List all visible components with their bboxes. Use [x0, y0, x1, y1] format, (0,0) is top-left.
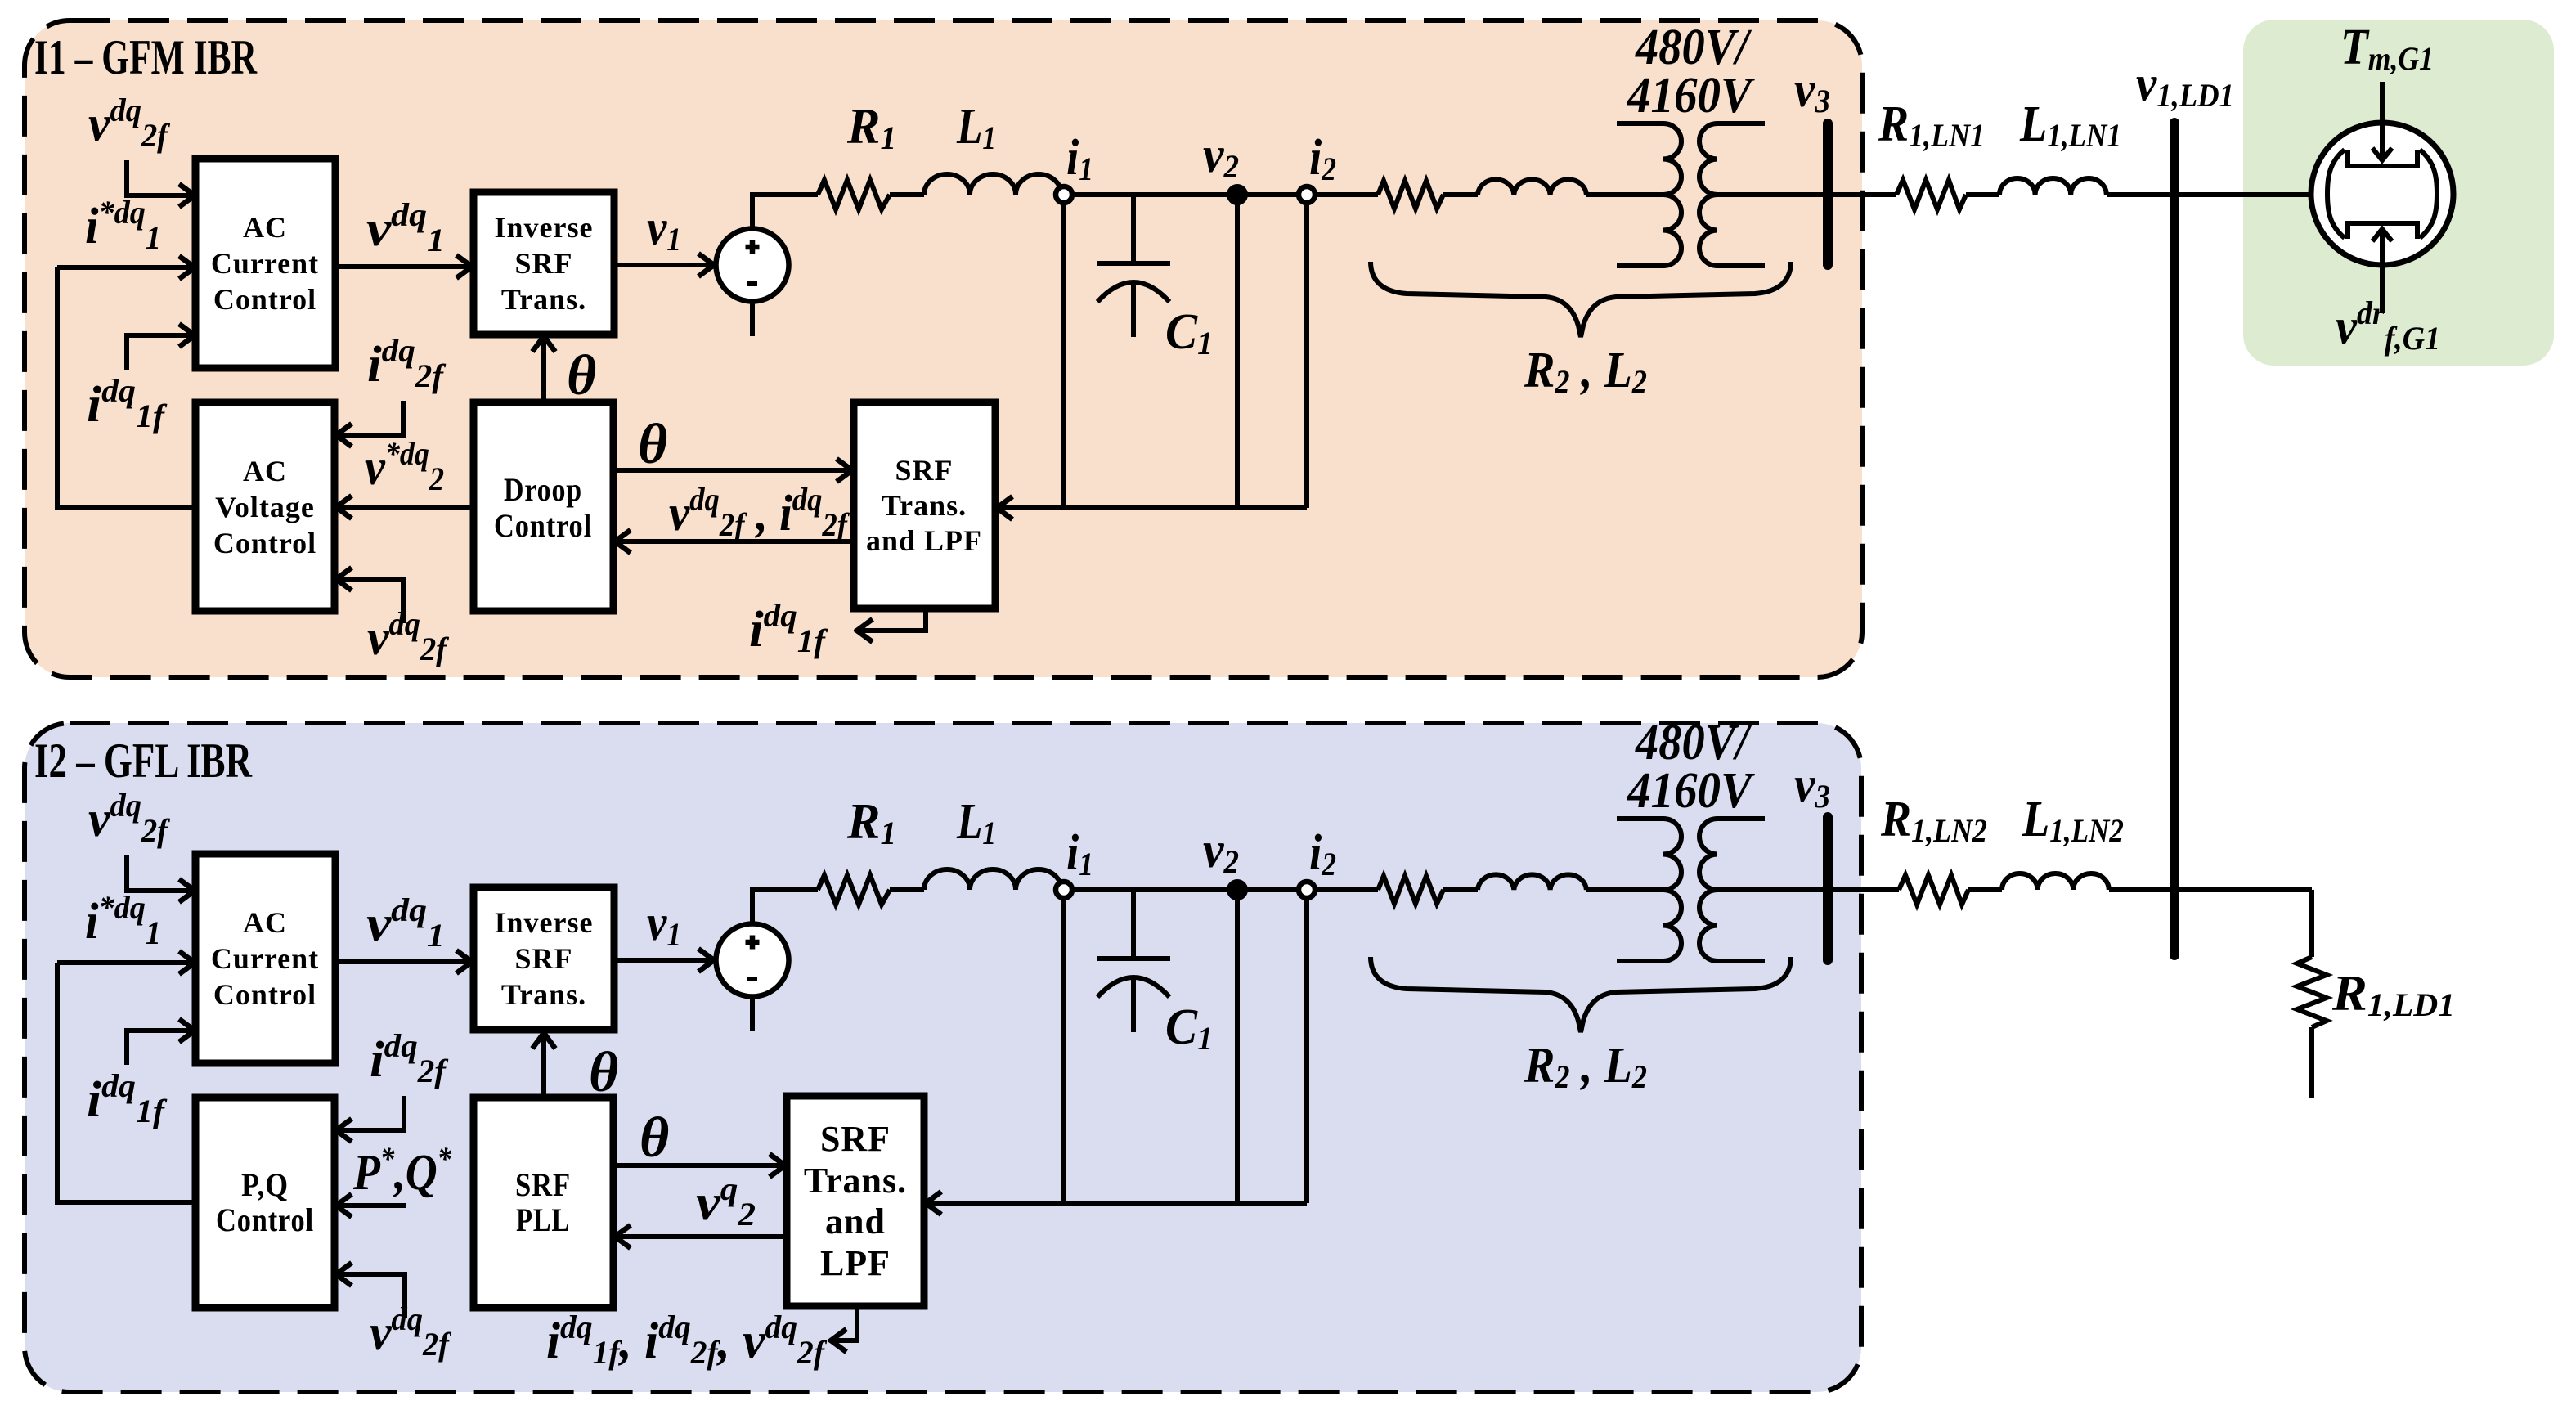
resistor R_1,LN2: [1899, 875, 1968, 905]
svg-text:L1,LN1: L1,LN1: [2019, 97, 2121, 154]
wire i*_dq_1 into AC Current Control: [57, 265, 195, 270]
wire R2 to L2 (I2): [1443, 887, 1478, 892]
wire v_dq_2f into AC Current Control: [127, 160, 195, 195]
voltage source V1 (I2): [716, 924, 789, 997]
svg-text:Trans.: Trans.: [501, 283, 586, 316]
wire bus v3 to R_1,LN2 (I2 outside): [1833, 887, 1899, 892]
wire i1 to v2 (I2): [1072, 887, 1228, 892]
svg-text:Control: Control: [494, 507, 592, 544]
wire v_dq_2f into AC Voltage Control lower: [336, 579, 403, 623]
svg-text:AC: AC: [243, 211, 287, 244]
wire v_dq_2f into P,Q Control lower (I2): [336, 1274, 405, 1318]
wire down to load resistor: [2309, 890, 2314, 957]
input torque arrow T_m,G1: [2380, 82, 2385, 160]
inductor L2 (I1): [1478, 179, 1586, 195]
svg-text:R2 , L2: R2 , L2: [1524, 1038, 1647, 1095]
resistor R1 (I2): [818, 875, 890, 905]
wire v_dq_1 AC Current Control to Inverse SRF: [335, 264, 472, 269]
wire L2 to transformer (I2): [1586, 887, 1663, 892]
generator G1: [2311, 123, 2453, 265]
wire source to R1: [752, 195, 818, 230]
svg-text:R2 , L2: R2 , L2: [1524, 343, 1647, 400]
brace R2,L2 (I2): [1371, 957, 1791, 1032]
wire theta SRF PLL to Inverse SRF (I2): [541, 1033, 546, 1098]
svg-text:Control: Control: [213, 283, 316, 316]
wire theta SRF PLL to SRF Trans. and LPF (I2): [613, 1163, 785, 1168]
wire transformer to bus v3: [1717, 192, 1823, 197]
wire load resistor bottom: [2309, 1027, 2314, 1098]
wire L_1,LN1 to bus v_1,LD1: [2107, 192, 2170, 197]
svg-text:Trans.: Trans.: [882, 489, 967, 522]
sense wire vertical from i1 (I2): [1061, 898, 1066, 1203]
svg-text:AC: AC: [243, 455, 287, 487]
I2 dashed region: [25, 715, 1861, 1392]
node i1 (I1): [1056, 186, 1072, 203]
svg-text:Voltage: Voltage: [215, 491, 315, 523]
transformer T1 secondary winding (I1): [1699, 123, 1765, 266]
wire transformer to bus v3 (I2): [1717, 887, 1823, 892]
svg-text:Trans.: Trans.: [501, 978, 586, 1011]
transformer T1 primary winding (I1): [1617, 123, 1681, 266]
svg-text:4160V: 4160V: [1627, 763, 1755, 819]
inductor L2 (I2): [1478, 874, 1586, 890]
capacitor C1 (I2): [1097, 890, 1170, 1032]
wire i_dq_1f into AC Current Control (I2): [127, 1031, 195, 1065]
svg-text:480V/: 480V/: [1635, 20, 1752, 75]
wire R_1,LN1 to L_1,LN1: [1966, 192, 1999, 197]
svg-text:P,Q: P,Q: [241, 1166, 289, 1203]
wire bus v3 to R_1,LN1: [1833, 192, 1896, 197]
svg-text:Inverse: Inverse: [495, 211, 594, 244]
block Droop Control (I1): [473, 402, 613, 611]
resistor R_1,LD1 (load): [2297, 957, 2327, 1027]
svg-text:L1,LN2: L1,LN2: [2022, 792, 2124, 849]
wire theta Droop to Inverse SRF: [541, 336, 546, 402]
svg-text:SRF: SRF: [515, 1166, 571, 1203]
block Inverse SRF Trans. (I1): [473, 192, 614, 335]
bus v3 (I2): [1823, 817, 1833, 960]
wire L_1,LN2 across bus to load: [2109, 887, 2312, 892]
wire v2 to i2 (I2): [1246, 887, 1299, 892]
wire bus to generator G1: [2179, 192, 2311, 197]
block AC Current Control (I2): [195, 854, 335, 1063]
svg-text:θ: θ: [589, 1041, 618, 1104]
wire v_dq_2f into AC Current Control (I2): [127, 855, 195, 891]
svg-text:PLL: PLL: [516, 1201, 570, 1238]
wire i_dq_1f into AC Current Control: [127, 335, 195, 370]
bus v_1,LD1: [2170, 123, 2179, 955]
svg-text:SRF: SRF: [514, 247, 572, 280]
node i2 (I1): [1299, 186, 1315, 203]
svg-text:SRF: SRF: [820, 1119, 891, 1159]
wire i*_dq_1 into AC Current Control (I2): [57, 960, 195, 965]
svg-text:AC: AC: [243, 906, 287, 939]
svg-text:Control: Control: [213, 527, 316, 559]
svg-text:R1,LN1: R1,LN1: [1878, 97, 1985, 154]
inductor L_1,LN1: [1999, 178, 2107, 195]
svg-text:v1,LD1: v1,LD1: [2136, 56, 2234, 114]
wire v1 into source (I2): [614, 958, 714, 963]
wire R_1,LN2 to L_1,LN2: [1968, 887, 2002, 892]
I1 dashed region: [25, 20, 1862, 677]
block SRF Trans. and LPF (I2): [787, 1096, 924, 1306]
sense wire into SRF Trans. and LPF: [997, 505, 1307, 510]
wire i2 to R2 (I2): [1315, 887, 1378, 892]
sense wire vertical from v2: [1235, 204, 1240, 508]
node v2 (I2): [1228, 881, 1246, 899]
green generator region: [2243, 20, 2554, 366]
svg-text:Trans.: Trans.: [804, 1161, 907, 1201]
transformer T2 primary winding (I2): [1617, 819, 1681, 961]
svg-text:4160V: 4160V: [1627, 68, 1755, 123]
svg-text:R1,LD1: R1,LD1: [2331, 966, 2455, 1023]
voltage source V1 (I1): [716, 229, 789, 302]
block AC Voltage Control (I1): [195, 402, 334, 611]
wire v2 to i2: [1246, 192, 1299, 197]
inductor L1 (I2): [924, 869, 1061, 890]
svg-text:P*,Q*: P*,Q*: [352, 1140, 452, 1201]
wire theta Droop to SRF Trans. and LPF: [613, 468, 852, 473]
capacitor C1 (I1): [1097, 195, 1170, 337]
wire outputs from SRF Trans. and LPF (I2): [831, 1306, 857, 1340]
node i2 (I2): [1299, 882, 1315, 898]
wire i2 to R2: [1315, 192, 1378, 197]
wire i_dq_1f output from SRF Trans. and LPF: [857, 608, 926, 631]
brace R2,L2 (I1): [1371, 262, 1791, 337]
block AC Current Control (I1): [195, 159, 335, 368]
wire feedback vertical to P,Q Control (I2): [57, 963, 195, 1202]
svg-text:I2 – GFL IBR: I2 – GFL IBR: [34, 734, 253, 788]
wire R1 to L1: [890, 192, 924, 197]
svg-text:Control: Control: [213, 978, 316, 1011]
transformer T2 secondary winding (I2): [1699, 819, 1765, 961]
bus v3 (I1): [1823, 123, 1833, 265]
wire v1 into source: [614, 263, 714, 267]
block P,Q Control (I2): [195, 1098, 334, 1308]
wire source bottom stub: [750, 300, 755, 336]
resistor R2 (I2): [1378, 876, 1443, 904]
wire feedback vertical to AC Voltage Control: [57, 267, 195, 507]
resistor R2 (I1): [1378, 181, 1443, 209]
wire L2 to transformer: [1586, 192, 1663, 197]
svg-text:SRF: SRF: [514, 942, 572, 975]
wire v*_dq_2 Droop to AC Voltage Control: [336, 505, 473, 510]
svg-text:R1,LN2: R1,LN2: [1880, 792, 1987, 849]
wire i1 to v2: [1072, 192, 1228, 197]
block SRF Trans. and LPF (I1): [854, 402, 995, 608]
sense wire vertical from i2 (I2): [1304, 898, 1309, 1203]
sense wire vertical from i1: [1061, 203, 1066, 508]
node i1 (I2): [1056, 882, 1072, 898]
svg-text:and: and: [825, 1201, 886, 1242]
field voltage arrow v_f,G1: [2380, 229, 2385, 313]
svg-text:Current: Current: [211, 942, 319, 975]
wire source to R1 (I2): [752, 890, 818, 925]
sense wire vertical from i2: [1304, 203, 1309, 508]
svg-text:I1 – GFM IBR: I1 – GFM IBR: [34, 30, 257, 84]
wire v_dq_2f i_dq_2f SRF to Droop: [615, 539, 854, 544]
wire i_dq_2f into AC Voltage Control: [336, 401, 403, 435]
svg-text:SRF: SRF: [895, 454, 953, 487]
wire R2 to L2: [1443, 192, 1478, 197]
wire R1 to L1 (I2): [890, 887, 924, 892]
svg-text:and LPF: and LPF: [866, 524, 982, 557]
svg-text:Control: Control: [216, 1201, 314, 1238]
svg-text:LPF: LPF: [820, 1243, 891, 1283]
svg-text:θ: θ: [638, 413, 667, 476]
wire v_q_2 SRF Trans. to SRF PLL (I2): [615, 1234, 787, 1239]
block Inverse SRF Trans. (I2): [473, 887, 614, 1030]
svg-text:Current: Current: [211, 247, 319, 280]
wire v_dq_1 AC Current Control to Inverse SRF (I2): [335, 959, 472, 964]
wire i_dq_2f into P,Q Control (I2): [336, 1096, 404, 1130]
resistor R1 (I1): [818, 180, 890, 209]
svg-text:θ: θ: [640, 1107, 669, 1170]
inductor L1 (I1): [924, 174, 1061, 195]
svg-text:θ: θ: [567, 344, 596, 407]
block SRF PLL (I2): [473, 1098, 613, 1308]
sense wire vertical from v2 (I2): [1235, 899, 1240, 1203]
svg-text:480V/: 480V/: [1635, 715, 1752, 770]
sense wire into SRF Trans. and LPF (I2): [926, 1201, 1307, 1206]
node v2 (I1): [1228, 186, 1246, 204]
wire source bottom stub (I2): [750, 995, 755, 1031]
inductor L_1,LN2: [2002, 873, 2109, 890]
svg-text:Droop: Droop: [504, 471, 582, 508]
svg-text:Inverse: Inverse: [495, 906, 594, 939]
wire P*,Q* into P,Q Control (I2): [336, 1203, 406, 1208]
resistor R_1,LN1: [1896, 180, 1966, 209]
